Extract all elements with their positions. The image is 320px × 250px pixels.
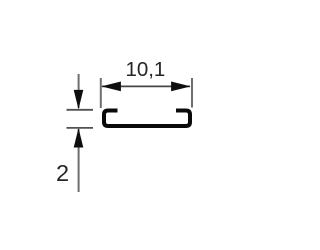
dimension line lower segment (2) [78, 129, 80, 192]
extension line left (for 10,1) [100, 78, 102, 108]
extension line bottom (for 2) [67, 127, 94, 129]
arrowhead up (2) [74, 128, 84, 148]
svg-text:10,1: 10,1 [125, 58, 165, 81]
arrowhead down (2) [74, 90, 84, 110]
arrowhead left (10,1) [101, 82, 121, 92]
extension line top (for 2) [67, 109, 94, 111]
dimension line 10,1 [102, 85, 190, 87]
profile cross-section (C-channel clip) [104, 111, 190, 127]
svg-text:2: 2 [56, 160, 69, 186]
extension line right (for 10,1) [191, 78, 193, 108]
dimension line upper segment (2) [78, 74, 80, 108]
arrowhead right (10,1) [171, 82, 191, 92]
